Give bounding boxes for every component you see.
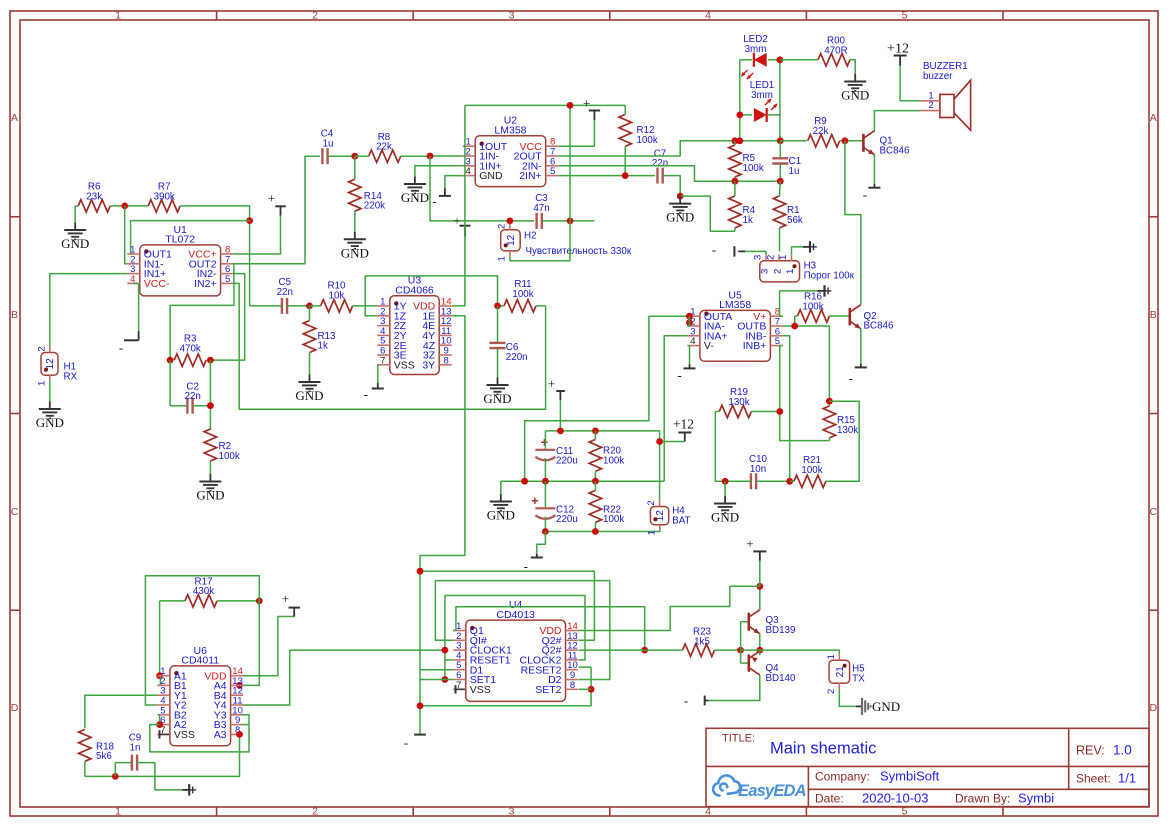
- wire vertical x570: [569, 105, 571, 260]
- svg-text:5: 5: [225, 274, 230, 285]
- wire U6 pin11 Y4 to U4 CLOCK1: [243, 650, 445, 705]
- svg-text:1: 1: [646, 530, 657, 535]
- node R15 top: [826, 398, 833, 405]
- svg-text:470k: 470k: [180, 343, 201, 354]
- svg-text:-: -: [684, 693, 688, 708]
- svg-text:-: -: [404, 735, 408, 750]
- svg-text:7: 7: [380, 355, 385, 366]
- svg-text:Порог 100к: Порог 100к: [804, 270, 855, 281]
- node C9 left: [112, 773, 119, 780]
- wire U6 pin3 Y1 to R18: [85, 695, 158, 728]
- wire pin12 Q2# to R23 row: [579, 649, 645, 651]
- wire R8 to U2 pin2: [430, 155, 463, 157]
- node OUTA: [686, 313, 693, 320]
- wire U1 pin3 IN1+ to H1: [50, 274, 128, 347]
- svg-text:C: C: [1150, 506, 1158, 518]
- svg-text:12: 12: [45, 358, 56, 370]
- wire OUTA to INA-: [687, 316, 689, 326]
- wire Q4 emitter: [759, 650, 761, 655]
- wire Q4 collector: [709, 675, 760, 700]
- node C10/GND: [722, 478, 729, 485]
- node C5/R10/R13: [306, 303, 313, 310]
- node top rail: [567, 102, 574, 109]
- node OUTA/mid: [521, 478, 528, 485]
- svg-text:+12: +12: [887, 41, 909, 56]
- svg-text:3mm: 3mm: [751, 90, 773, 101]
- svg-text:-: -: [364, 387, 368, 402]
- svg-text:V-: V-: [704, 340, 714, 352]
- header H1 RX: [41, 353, 58, 376]
- wire H5 pin2 to GND: [839, 689, 856, 706]
- node junction R7/OUT1: [246, 217, 253, 224]
- svg-text:TITLE:: TITLE:: [722, 733, 755, 745]
- svg-text:1: 1: [496, 256, 507, 261]
- power flag + (U6 VDD): [293, 611, 295, 617]
- svg-text:+: +: [282, 591, 289, 606]
- wire U6 pin6 to pin10: [150, 715, 249, 752]
- wire bottom loop SET2: [420, 667, 591, 706]
- svg-text:23k: 23k: [86, 191, 102, 202]
- wire loop4 Q1-Q2#: [453, 607, 644, 650]
- wire Q3 emitter to row: [759, 633, 761, 650]
- wire pin5 D1: [420, 669, 453, 671]
- svg-text:RX: RX: [64, 371, 78, 382]
- svg-text:GND: GND: [872, 699, 900, 714]
- resistor R2: [204, 429, 216, 461]
- wire U3 pin13 1E long chain: [420, 316, 465, 735]
- wire loop1 Q2#13: [420, 571, 594, 640]
- svg-text:1: 1: [785, 269, 796, 274]
- svg-text:22k: 22k: [376, 142, 392, 153]
- wire OUT1 loop: [131, 221, 250, 254]
- svg-text:1u: 1u: [789, 166, 800, 177]
- power flag - (x420 bottom): [414, 734, 426, 736]
- resistor R12: [619, 114, 631, 146]
- node C4/R8/R14: [351, 153, 358, 160]
- node C3/H2: [507, 218, 514, 225]
- power flag - (U4 VSS): [455, 685, 457, 693]
- svg-text:GND: GND: [196, 488, 224, 503]
- svg-text:B: B: [1150, 309, 1157, 321]
- svg-text:D: D: [11, 702, 19, 714]
- svg-text:GND: GND: [36, 415, 64, 430]
- node R20/R22: [592, 478, 599, 485]
- wire R6 left to GND: [75, 205, 78, 207]
- ground GND (C10): [724, 496, 726, 504]
- ground GND (R14): [354, 232, 356, 240]
- resistor R16: [798, 310, 830, 322]
- svg-text:220k: 220k: [364, 201, 385, 212]
- svg-text:+: +: [583, 96, 590, 111]
- svg-text:BC846: BC846: [864, 321, 895, 332]
- svg-text:2: 2: [826, 689, 837, 694]
- svg-text:10k: 10k: [329, 291, 345, 302]
- wire pin6 SET1: [420, 679, 453, 681]
- capacitor C2: [170, 360, 187, 406]
- svg-text:CD4011: CD4011: [181, 655, 219, 667]
- svg-text:2: 2: [773, 269, 784, 274]
- wire Q1 base to Q2 collector: [845, 141, 861, 305]
- node CLOCK1: [442, 647, 449, 654]
- wire bottom rail R18/C9/A3: [85, 734, 240, 776]
- svg-text:4: 4: [690, 336, 695, 347]
- transistor Q3 BD139: [747, 613, 750, 631]
- svg-text:2IN+: 2IN+: [519, 170, 541, 182]
- svg-text:2: 2: [312, 10, 318, 22]
- node R3 left: [167, 357, 174, 364]
- svg-text:47n: 47n: [533, 203, 549, 214]
- node C1/R9: [777, 137, 784, 144]
- node U6 pin13: [236, 682, 243, 689]
- resistor R18: [79, 729, 91, 761]
- node R16/OUTB: [791, 323, 798, 330]
- resistor R20: [589, 439, 601, 471]
- svg-text:1: 1: [778, 255, 789, 260]
- wire LED rails: [739, 60, 741, 141]
- power flag - (H3): [745, 251, 766, 254]
- capacitor C5: [281, 298, 283, 314]
- transistor Q1 BC846: [862, 134, 865, 152]
- svg-text:5k6: 5k6: [96, 751, 112, 762]
- svg-text:GND: GND: [341, 245, 369, 260]
- resistor R21: [794, 475, 826, 487]
- svg-text:BD139: BD139: [766, 625, 796, 636]
- wire U6 pin2 to pin1: [157, 676, 160, 686]
- svg-text:12: 12: [506, 234, 517, 246]
- svg-text:-: -: [849, 370, 853, 385]
- power flag - (U2 pin4 GND): [445, 176, 463, 189]
- node loop1 left: [417, 568, 424, 575]
- wire U5 pin8 V+: [780, 291, 821, 316]
- header H3: [760, 261, 800, 282]
- header H4 BAT: [650, 507, 668, 525]
- node LED rail bottom: [736, 137, 743, 144]
- capacitor C4: [321, 148, 323, 164]
- node C7/GND: [677, 193, 684, 200]
- svg-text:100k: 100k: [603, 514, 624, 525]
- node R5 top: [732, 137, 739, 144]
- capacitor C12 220u: [535, 507, 555, 509]
- svg-text:2: 2: [646, 500, 657, 505]
- svg-text:+: +: [548, 376, 555, 391]
- svg-text:1u: 1u: [323, 139, 334, 150]
- svg-text:2: 2: [312, 806, 318, 818]
- svg-text:GND: GND: [295, 388, 323, 403]
- svg-text:1/1: 1/1: [1118, 771, 1136, 786]
- resistor R13: [303, 321, 315, 353]
- svg-text:VSS: VSS: [174, 729, 195, 741]
- node Q3e/Q4e: [756, 647, 763, 654]
- svg-text:100k: 100k: [802, 302, 823, 313]
- svg-text:Чувствительность 330к: Чувствительность 330к: [526, 246, 632, 257]
- wire U5 pin6 INB-: [783, 336, 790, 482]
- svg-text:LM358: LM358: [719, 299, 751, 311]
- svg-text:2: 2: [36, 346, 47, 351]
- EasyEDA logo: [713, 775, 740, 795]
- svg-text:Drawn By:: Drawn By:: [955, 792, 1010, 806]
- wire loop2 QI#-D2: [435, 581, 609, 680]
- resistor R7: [148, 200, 180, 212]
- svg-text:100k: 100k: [603, 456, 624, 467]
- svg-text:1k: 1k: [318, 341, 328, 352]
- svg-text:1k5: 1k5: [694, 636, 710, 647]
- svg-text:22n: 22n: [652, 158, 668, 169]
- power flag + (C11 rail): [556, 390, 565, 392]
- svg-text:22n: 22n: [185, 391, 201, 402]
- ground GND (R00): [854, 74, 856, 82]
- svg-text:C: C: [11, 506, 19, 518]
- node +12: [656, 438, 663, 445]
- wire Q3 collector staircase: [578, 586, 760, 630]
- svg-text:EasyEDA: EasyEDA: [738, 782, 806, 800]
- wire to U1 pin2: [125, 206, 128, 264]
- svg-text:Symbi: Symbi: [1018, 791, 1054, 806]
- svg-text:100k: 100k: [219, 451, 240, 462]
- ground GND (C7): [679, 196, 681, 204]
- svg-text:VSS: VSS: [470, 684, 491, 696]
- svg-text:130k: 130k: [728, 397, 749, 408]
- node junction R8/U2.2: [427, 153, 434, 160]
- svg-text:4: 4: [466, 166, 471, 177]
- node C11/C12: [542, 478, 549, 485]
- svg-text:4: 4: [705, 10, 711, 22]
- svg-text:1n: 1n: [130, 743, 141, 754]
- resistor R23: [683, 644, 715, 656]
- power flag - (Q4): [706, 700, 709, 702]
- ground GND (H1): [49, 402, 51, 410]
- svg-text:CD4066: CD4066: [395, 285, 434, 297]
- wire Q3/Q4 base vertical: [740, 622, 742, 663]
- node Q2#/R23: [641, 647, 648, 654]
- svg-text:A3: A3: [214, 729, 227, 741]
- svg-text:390k: 390k: [154, 191, 175, 202]
- svg-text:GND: GND: [666, 210, 694, 225]
- svg-text:1: 1: [36, 381, 47, 386]
- resistor R10: [321, 300, 353, 312]
- power flag + (U1 VCC+): [233, 216, 280, 255]
- svg-text:INB+: INB+: [743, 340, 767, 352]
- node R5/R4: [732, 178, 739, 185]
- wire U1 pin7 OUT2 to C4: [233, 156, 320, 264]
- ground GND (C6): [497, 378, 499, 386]
- svg-text:2020-10-03: 2020-10-03: [862, 791, 929, 806]
- resistor R6: [78, 200, 110, 212]
- node C3 right: [567, 218, 574, 225]
- svg-text:100k: 100k: [743, 163, 764, 174]
- svg-text:10n: 10n: [750, 464, 766, 475]
- resistor R15: [823, 406, 835, 438]
- svg-text:2: 2: [496, 224, 507, 229]
- svg-text:56k: 56k: [787, 215, 803, 226]
- capacitor C1: [772, 157, 788, 159]
- wire U2 pin1 down to U3 pin14: [452, 105, 465, 306]
- node R20 top: [592, 428, 599, 435]
- power flag - (U5 V-): [689, 346, 692, 365]
- svg-text:220u: 220u: [556, 456, 578, 467]
- node R22 bottom: [592, 528, 599, 535]
- svg-text:8: 8: [444, 355, 449, 366]
- resistor R8: [369, 150, 401, 162]
- svg-text:+12: +12: [673, 416, 694, 431]
- node R12/C7: [622, 172, 629, 179]
- node bottom loop: [417, 702, 424, 709]
- svg-text:130k: 130k: [837, 425, 858, 436]
- wire Q1 emitter: [873, 154, 875, 184]
- wire U5 pin7 OUTB: [783, 326, 830, 401]
- svg-text:3: 3: [509, 806, 515, 818]
- ground GND (mid rail): [500, 494, 502, 502]
- svg-text:TL072: TL072: [165, 234, 195, 246]
- power flag - (U1 VCC-): [133, 283, 139, 331]
- svg-text:5: 5: [550, 166, 555, 177]
- svg-text:1.0: 1.0: [1113, 743, 1132, 758]
- svg-text:VSS: VSS: [394, 359, 415, 371]
- svg-text:GND: GND: [841, 88, 869, 103]
- svg-text:GND: GND: [401, 190, 429, 205]
- wire U2 pin6 2IN- rail: [558, 166, 780, 181]
- svg-text:3: 3: [753, 255, 764, 260]
- svg-text:1: 1: [826, 654, 837, 659]
- ground GND (R13): [309, 375, 311, 383]
- wire U6 top loop to pin4: [145, 576, 259, 705]
- wire R15 top to R21: [826, 401, 860, 481]
- capacitor C11 220u: [535, 449, 555, 451]
- node U6 pin6: [156, 721, 163, 728]
- svg-text:100k: 100k: [512, 289, 533, 300]
- node +flag/rail1: [557, 428, 564, 435]
- wire R6-R7: [110, 205, 148, 207]
- power flag + (H3): [792, 247, 804, 255]
- power flag - (U6 VSS): [159, 730, 161, 738]
- resistor R4: [729, 196, 741, 228]
- wire output row to H5: [741, 650, 840, 654]
- svg-text:+: +: [268, 191, 275, 206]
- svg-text:B: B: [11, 309, 18, 321]
- wire H1 pin1 to GND: [49, 381, 51, 401]
- resistor R5: [729, 145, 741, 177]
- transistor Q4 BD140: [747, 655, 750, 672]
- node R19/INB+: [776, 408, 783, 415]
- svg-text:3mm: 3mm: [745, 44, 767, 55]
- node Q3/Q4 base: [737, 647, 744, 654]
- resistor R11: [504, 300, 536, 312]
- wire mid GND row: [501, 480, 664, 482]
- node LED1 left: [736, 112, 743, 119]
- svg-text:3: 3: [760, 269, 771, 274]
- wire OUT2 feedback tap: [170, 264, 234, 360]
- node C1/R1: [777, 178, 784, 185]
- svg-text:Main shematic: Main shematic: [770, 740, 876, 758]
- wire rail1 C11 top: [545, 431, 659, 501]
- svg-text:220u: 220u: [556, 514, 578, 525]
- svg-text:100k: 100k: [637, 135, 658, 146]
- wire U6 pin14 VDD to +: [243, 617, 294, 676]
- node R17 right: [256, 598, 263, 605]
- resistor R19: [719, 405, 751, 417]
- wire U3 pin2 1Z loop: [365, 276, 497, 316]
- node C2/R2: [207, 402, 214, 409]
- svg-text:-: -: [677, 367, 681, 382]
- node OUTA-INA-: [686, 319, 693, 326]
- resistor R9: [808, 135, 840, 147]
- ground GND (R6): [74, 223, 76, 231]
- svg-text:SET2: SET2: [535, 684, 561, 696]
- wire Q3 collector chain: [759, 586, 761, 610]
- svg-text:H2: H2: [524, 231, 537, 242]
- svg-text:IN2+: IN2+: [194, 278, 216, 290]
- svg-text:D: D: [1150, 702, 1158, 714]
- resistor R17: [185, 595, 217, 607]
- wire bottom rail: [545, 525, 659, 532]
- svg-text:100k: 100k: [801, 465, 822, 476]
- svg-text:3Y: 3Y: [422, 359, 435, 371]
- svg-text:A: A: [11, 112, 18, 124]
- svg-text:TX: TX: [852, 673, 865, 684]
- wire Q2 emitter: [860, 329, 862, 364]
- wire U2 top rail: [465, 104, 625, 106]
- svg-text:BC846: BC846: [880, 145, 911, 156]
- node R11/C6: [494, 303, 501, 310]
- node Q1 base: [842, 137, 849, 144]
- svg-text:GND: GND: [483, 391, 511, 406]
- resistor R14: [349, 179, 361, 211]
- svg-text:BAT: BAT: [672, 516, 690, 527]
- svg-text:CD4013: CD4013: [496, 609, 535, 621]
- wire U5 pin3 INA+: [664, 336, 687, 481]
- node Q3 collector: [756, 583, 763, 590]
- svg-text:5: 5: [902, 10, 908, 22]
- resistor R00: [818, 54, 850, 66]
- svg-text:8: 8: [570, 680, 575, 691]
- svg-text:1k: 1k: [743, 215, 753, 226]
- svg-text:BD140: BD140: [766, 673, 797, 684]
- resistor R3: [174, 354, 206, 366]
- svg-text:GND: GND: [487, 508, 515, 523]
- svg-text:buzzer: buzzer: [923, 71, 953, 82]
- node C12 bottom: [542, 528, 549, 535]
- wire R7 right: [180, 206, 249, 306]
- wire U2 pin3 1IN+ to GND: [415, 166, 463, 177]
- resistor R22: [589, 490, 601, 522]
- svg-text:GND: GND: [711, 510, 739, 525]
- ground GND (R2): [209, 474, 211, 482]
- svg-text:VCC-: VCC-: [144, 278, 170, 290]
- wire U2 pin7 2OUT rail: [558, 141, 780, 156]
- resistor R1: [773, 196, 785, 228]
- node C10/R21: [786, 478, 793, 485]
- svg-text:22k: 22k: [813, 126, 829, 137]
- wire C7 right / GND / R4: [663, 176, 681, 197]
- wire U1 pin5 IN2+ long: [233, 283, 545, 409]
- ground GND (H5): [856, 705, 862, 707]
- wire U6 pin5 to pin6: [158, 715, 160, 725]
- node LED2/R00: [777, 56, 784, 63]
- svg-text:-: -: [432, 193, 436, 208]
- header H5 TX: [829, 660, 850, 683]
- svg-text:A: A: [1150, 112, 1157, 124]
- svg-text:470R: 470R: [824, 45, 847, 56]
- svg-text:REV:: REV:: [1076, 744, 1105, 758]
- ground GND (U2.3): [414, 177, 416, 185]
- node R3 right: [207, 357, 214, 364]
- svg-text:-: -: [863, 187, 867, 202]
- wire H2 pin1: [510, 257, 570, 261]
- wire U5 pin5 INB+: [780, 346, 830, 441]
- wire U2 pin5 2IN+ to C7: [558, 175, 655, 177]
- svg-text:1: 1: [115, 806, 121, 818]
- capacitor C3: [535, 213, 537, 229]
- svg-text:Sheet:: Sheet:: [1076, 772, 1111, 786]
